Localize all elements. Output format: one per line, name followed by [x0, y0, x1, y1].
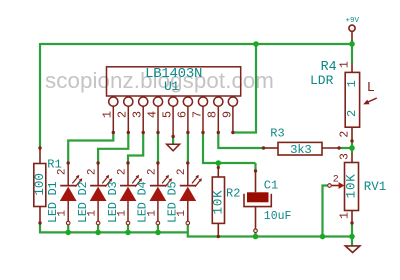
LED D1 triangle — [60, 187, 77, 201]
junction pin9 riser / +9V rail — [253, 41, 259, 47]
LED D3 bottom stub — [127, 201, 129, 223]
svg-text:2: 2 — [338, 131, 351, 138]
LED D1 light arrow b — [75, 180, 80, 187]
svg-text:4: 4 — [145, 111, 159, 118]
junction D3 / bus — [125, 230, 131, 236]
LDR R4 bottom stub — [351, 127, 353, 141]
svg-text:2: 2 — [333, 174, 339, 185]
svg-text:2: 2 — [116, 111, 130, 118]
U1 pin 7 stub — [202, 106, 204, 132]
LDR R4 pin2 end dot — [350, 139, 353, 142]
LED D4 anode stub — [157, 163, 159, 186]
U1 pin 8 circle — [214, 97, 223, 106]
potentiometer RV1 bottom stub — [351, 211, 353, 224]
LED D4 bottom pin dot — [156, 221, 160, 225]
svg-text:U1: U1 — [164, 79, 180, 94]
svg-text:8: 8 — [206, 111, 220, 118]
svg-text:LED D2: LED D2 — [76, 182, 90, 223]
LED D5 light arrow b — [195, 180, 200, 187]
U1 pin 3 end dot — [142, 131, 145, 134]
RV1 wiper arrow — [330, 185, 341, 187]
svg-text:RV1: RV1 — [364, 180, 387, 194]
svg-text:2: 2 — [176, 168, 188, 175]
wire LED D1 cathode to bus — [67, 223, 69, 232]
resistor R3 body — [278, 142, 322, 155]
ground GND2 — [345, 246, 360, 253]
svg-text:2: 2 — [57, 168, 69, 175]
junction D2 / bus — [95, 230, 101, 236]
LED D2 anode stub — [97, 163, 99, 186]
U1 pin 4 stub — [157, 106, 159, 132]
svg-text:9: 9 — [220, 111, 234, 118]
LED D1 light arrow a — [72, 177, 77, 184]
svg-text:7: 7 — [190, 111, 204, 118]
LED D2 light arrow b — [105, 180, 110, 187]
LED D5 triangle — [179, 187, 196, 201]
op-amp U1 LB1403N body — [107, 67, 241, 96]
resistor R1 pin1 dot — [38, 146, 41, 149]
svg-text:LED D4: LED D4 — [136, 182, 150, 223]
svg-text:R2: R2 — [226, 186, 240, 200]
U1 pin 1 circle — [109, 97, 118, 106]
wire +9V top rail — [40, 43, 352, 45]
U1 pin 9 end dot — [231, 131, 234, 134]
svg-text:5: 5 — [161, 111, 175, 118]
svg-text:LED D3: LED D3 — [106, 182, 120, 223]
wire pin 5 to ground — [172, 137, 174, 145]
resistor R2 pin2 dot — [217, 235, 220, 238]
capacitor C1 top stub — [255, 171, 257, 192]
resistor R1 bottom stub — [39, 207, 41, 224]
LED D1 cathode bar — [60, 185, 76, 187]
LED D4 top pin dot — [156, 161, 159, 164]
U1 pin 2 circle — [124, 97, 133, 106]
U1 pin 5 end dot — [171, 135, 174, 138]
wire node to C1 top — [254, 163, 256, 171]
LED D4 light arrow a — [162, 177, 167, 184]
potentiometer RV1 top stub — [351, 153, 353, 163]
svg-text:L: L — [367, 81, 375, 96]
wire LED D3 cathode to bus — [127, 223, 129, 232]
wire pin 9 to +9V rail riser — [233, 44, 256, 133]
LED D1 anode stub — [67, 163, 69, 186]
resistor R1 top stub — [39, 148, 41, 164]
U1 pin 6 stub — [187, 106, 189, 132]
junction R2 node — [216, 160, 222, 166]
svg-text:2: 2 — [116, 168, 128, 175]
svg-text:R3: R3 — [270, 127, 284, 141]
U1 pin 7 end dot — [201, 131, 204, 134]
junction +9V terminal / rail — [349, 41, 355, 47]
LED D3 light arrow a — [132, 177, 137, 184]
wire pin 3 to LED D3 anode — [128, 133, 143, 164]
LED D2 bottom stub — [97, 201, 99, 223]
wire RV1 pin1 to ground symbol — [351, 223, 353, 246]
U1 pin 3 circle — [139, 97, 148, 106]
capacitor C1 negative plate bracket — [244, 194, 271, 207]
wire R3 right to LDR/RV1 junction — [339, 147, 352, 149]
wire pin 4 to LED D4 anode — [157, 133, 159, 164]
resistor R3 pin2 dot — [337, 146, 340, 149]
svg-text:6: 6 — [175, 111, 189, 118]
svg-text:LED D5: LED D5 — [166, 182, 180, 223]
wire LED cathode bus — [39, 231, 188, 233]
capacitor C1 positive plate — [247, 192, 269, 202]
wire pin 6 to LED D5 anode — [187, 133, 189, 164]
U1 pin 1 stub — [112, 106, 114, 132]
U1 pin 9 stub — [232, 106, 234, 132]
LED D2 light arrow a — [102, 177, 107, 184]
LED D3 triangle — [120, 187, 137, 201]
U1 pin 6 circle — [183, 97, 192, 106]
resistor R3 right stub — [322, 147, 339, 149]
U1 pin 5 stub — [172, 106, 174, 136]
svg-text:1: 1 — [345, 80, 359, 87]
wire LED D4 cathode to bus — [157, 223, 159, 232]
wire D5 column jog down — [187, 223, 189, 238]
svg-text:LDR: LDR — [310, 73, 334, 88]
U1 pin 3 stub — [142, 106, 144, 132]
wire pin 1 to LED D1 anode — [68, 133, 113, 164]
wire R4 pin2 to RV1 pin3 link — [351, 141, 353, 153]
junction R3 / R4 / RV1 — [349, 145, 355, 151]
LED D2 cathode bar — [90, 185, 106, 187]
LED D4 bottom stub — [157, 201, 159, 223]
capacitor C1 bottom pin dot — [254, 229, 258, 233]
wire C1 bottom to ground bus — [254, 231, 256, 237]
U1 pin 2 stub — [127, 106, 129, 132]
LED D3 anode stub — [127, 163, 129, 186]
LED D2 bottom pin dot — [96, 221, 100, 225]
U1 pin 6 end dot — [186, 131, 189, 134]
wire pin 7 to R2/C1 node — [203, 133, 256, 164]
wire pin 8 to R3 left — [218, 133, 263, 149]
U1 pin 7 circle — [198, 97, 207, 106]
U1 pin 2 end dot — [127, 131, 130, 134]
ground GND1 — [167, 144, 180, 151]
LED D5 light arrow a — [192, 177, 197, 184]
LDR R4 top stub — [351, 63, 353, 72]
wire pin 2 to LED D2 anode — [98, 133, 128, 164]
resistor R2 pin1 dot — [217, 166, 220, 169]
LED D1 bottom pin dot — [66, 221, 70, 225]
potentiometer RV1 body — [345, 163, 359, 211]
LED D5 top pin dot — [186, 161, 189, 164]
light arrow into LDR — [367, 98, 377, 102]
resistor R1 pin2 dot — [38, 221, 41, 224]
LED D3 cathode bar — [120, 185, 136, 187]
U1 pin 4 circle — [153, 97, 162, 106]
LED D4 triangle — [150, 187, 167, 201]
node +9V terminal circle — [349, 25, 355, 31]
svg-text:1: 1 — [339, 61, 352, 68]
resistor R1 body — [34, 164, 46, 207]
LED D1 bottom stub — [67, 201, 69, 223]
resistor R3 pin1 dot — [262, 146, 265, 149]
LED D5 anode stub — [187, 163, 189, 186]
wire +9V terminal to rail and down to R4 — [351, 40, 353, 63]
svg-text:+9V: +9V — [346, 17, 360, 25]
RV1 wiper pin end ring — [328, 184, 332, 188]
resistor R2 body — [212, 177, 224, 223]
LDR R4 body — [345, 72, 359, 127]
U1 pin 9 circle — [228, 97, 237, 106]
junction wiper / ground bus — [320, 234, 326, 240]
svg-text:1: 1 — [339, 212, 352, 219]
svg-text:100: 100 — [33, 173, 47, 196]
svg-text:3k3: 3k3 — [290, 143, 311, 157]
resistor R2 bottom stub — [217, 223, 219, 236]
LED D5 bottom pin dot — [186, 221, 190, 225]
wire left rail down to R1 — [39, 43, 41, 148]
wire R1 to bottom LED bus — [39, 223, 41, 233]
LED D4 light arrow b — [165, 180, 170, 187]
LED D3 top pin dot — [126, 161, 129, 164]
wire RV1 wiper to ground bus — [323, 186, 330, 237]
LED D5 bottom stub — [187, 201, 189, 223]
svg-text:1: 1 — [101, 111, 115, 118]
wire bottom ground bus — [187, 235, 352, 237]
resistor R3 left stub — [264, 147, 279, 149]
svg-text:10K: 10K — [211, 190, 225, 215]
U1 pin 5 circle — [169, 97, 178, 106]
wire +9V terminal stub — [351, 31, 353, 40]
svg-text:3: 3 — [131, 111, 145, 118]
U1 pin 8 stub — [217, 106, 219, 132]
svg-text:2: 2 — [146, 168, 158, 175]
LED D2 triangle — [90, 187, 107, 201]
U1 pin 1 end dot — [112, 131, 115, 134]
resistor R2 top stub — [217, 167, 219, 177]
svg-text:10uF: 10uF — [264, 210, 292, 223]
capacitor C1 top pin dot — [254, 169, 257, 172]
U1 pin 4 end dot — [156, 131, 159, 134]
junction D4 / bus — [155, 230, 161, 236]
wire node to R2 top — [217, 163, 219, 168]
svg-text:C1: C1 — [264, 179, 278, 193]
svg-text:10K: 10K — [344, 173, 358, 198]
junction RV1 / ground bus — [349, 234, 355, 240]
LED D1 top pin dot — [67, 161, 70, 164]
LED D2 top pin dot — [96, 161, 99, 164]
LED D5 cathode bar — [180, 185, 196, 187]
capacitor C1 bottom stub — [255, 207, 257, 231]
svg-text:2: 2 — [87, 168, 99, 175]
svg-text:2: 2 — [345, 110, 359, 117]
LED D4 cathode bar — [150, 185, 166, 187]
U1 pin 8 end dot — [217, 131, 220, 134]
svg-text:LED D1: LED D1 — [46, 182, 60, 223]
LED D3 bottom pin dot — [126, 221, 130, 225]
junction C1 / ground bus — [253, 234, 259, 240]
svg-text:3: 3 — [339, 153, 352, 160]
wire LED D2 cathode to bus — [97, 223, 99, 232]
RV1 pin1 end dot — [350, 221, 353, 224]
LED D3 light arrow b — [135, 180, 140, 187]
junction D1 / bus — [65, 230, 71, 236]
